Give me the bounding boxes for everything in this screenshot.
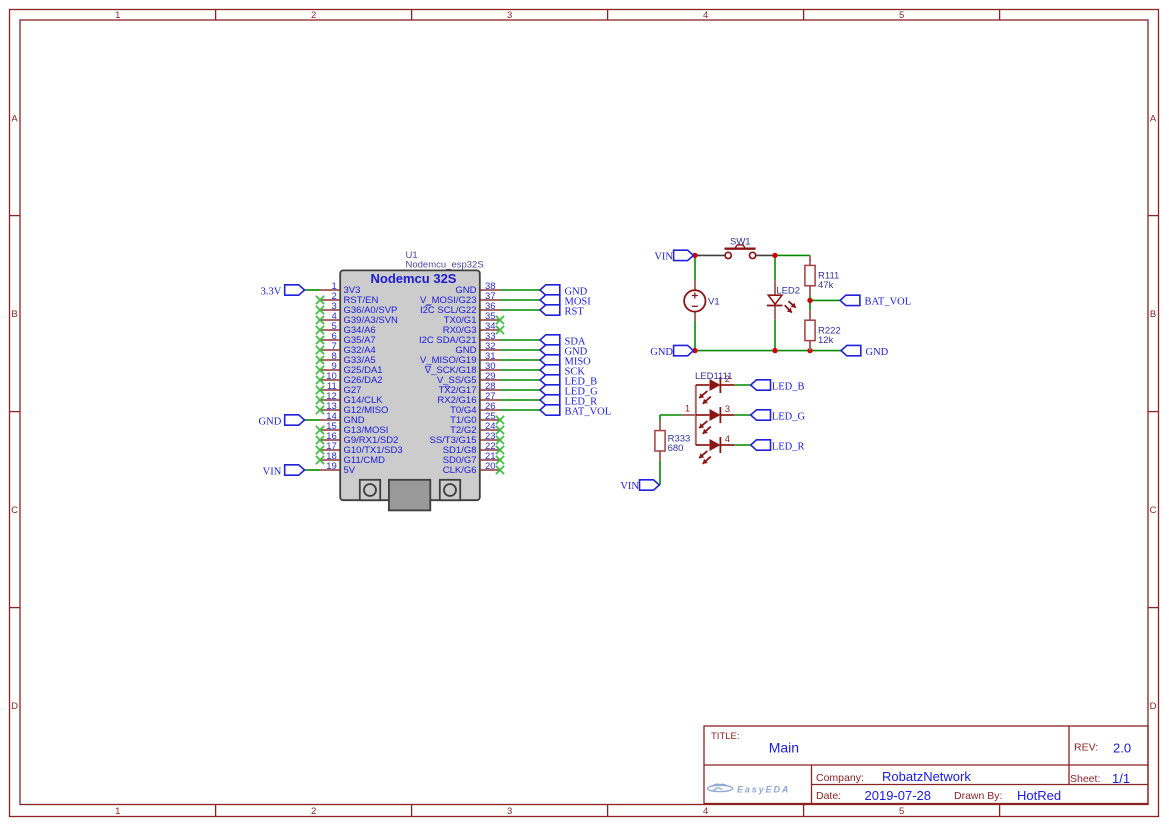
svg-text:4: 4	[703, 806, 708, 817]
svg-text:3.3V: 3.3V	[261, 286, 282, 297]
svg-text:3: 3	[507, 10, 512, 21]
svg-text:D: D	[1150, 701, 1157, 712]
svg-text:3: 3	[507, 806, 512, 817]
svg-text:D: D	[11, 701, 18, 712]
svg-text:GND: GND	[866, 347, 889, 358]
svg-text:LED_G: LED_G	[772, 411, 806, 422]
svg-text:B: B	[11, 309, 17, 320]
svg-text:TITLE:: TITLE:	[711, 731, 740, 742]
svg-text:5V: 5V	[344, 465, 356, 476]
svg-text:19: 19	[326, 461, 337, 472]
svg-text:3: 3	[725, 404, 730, 415]
svg-text:BAT_VOL: BAT_VOL	[865, 297, 912, 308]
svg-text:RobatzNetwork: RobatzNetwork	[882, 769, 971, 784]
svg-text:LED1111: LED1111	[695, 371, 733, 382]
svg-text:1: 1	[115, 10, 120, 21]
svg-text:2019-07-28: 2019-07-28	[865, 788, 932, 803]
svg-text:47k: 47k	[818, 280, 834, 291]
svg-text:LED2: LED2	[776, 286, 800, 297]
svg-text:4: 4	[703, 10, 708, 21]
svg-text:C: C	[1150, 505, 1157, 516]
svg-text:V1: V1	[708, 297, 720, 308]
svg-text:RST: RST	[565, 306, 585, 317]
svg-text:LED_R: LED_R	[772, 441, 805, 452]
svg-text:Drawn By:: Drawn By:	[954, 790, 1002, 802]
svg-text:5: 5	[899, 10, 904, 21]
svg-text:Nodemcu_esp32S: Nodemcu_esp32S	[406, 260, 484, 271]
svg-text:Date:: Date:	[816, 790, 841, 802]
svg-text:Nodemcu 32S: Nodemcu 32S	[371, 271, 457, 286]
svg-text:2: 2	[311, 10, 316, 21]
svg-text:12k: 12k	[818, 335, 834, 346]
svg-text:B: B	[1150, 309, 1156, 320]
svg-text:REV:: REV:	[1074, 742, 1098, 754]
svg-text:EasyEDA: EasyEDA	[737, 784, 790, 794]
svg-text:680: 680	[668, 443, 684, 454]
svg-text:Sheet:: Sheet:	[1070, 773, 1100, 785]
svg-text:BAT_VOL: BAT_VOL	[565, 406, 612, 417]
svg-text:SW1: SW1	[730, 237, 751, 248]
svg-text:HotRed: HotRed	[1017, 788, 1061, 803]
svg-text:1: 1	[115, 806, 120, 817]
svg-text:A: A	[1150, 113, 1157, 124]
svg-text:Main: Main	[769, 739, 799, 755]
svg-text:C: C	[11, 505, 18, 516]
svg-text:1/1: 1/1	[1112, 771, 1130, 786]
svg-text:VIN: VIN	[654, 252, 673, 263]
svg-text:2.0: 2.0	[1113, 740, 1131, 755]
svg-text:1: 1	[685, 404, 690, 415]
svg-text:20: 20	[485, 461, 496, 472]
svg-text:CLK/G6: CLK/G6	[443, 465, 477, 476]
svg-text:4: 4	[725, 434, 730, 445]
svg-text:GND: GND	[650, 347, 673, 358]
svg-text:LED_B: LED_B	[772, 381, 805, 392]
svg-text:5: 5	[899, 806, 904, 817]
svg-text:VIN: VIN	[263, 466, 282, 477]
svg-text:2: 2	[311, 806, 316, 817]
svg-text:VIN: VIN	[620, 481, 639, 492]
svg-text:A: A	[11, 113, 18, 124]
svg-text:Company:: Company:	[816, 772, 864, 784]
svg-text:GND: GND	[259, 416, 282, 427]
